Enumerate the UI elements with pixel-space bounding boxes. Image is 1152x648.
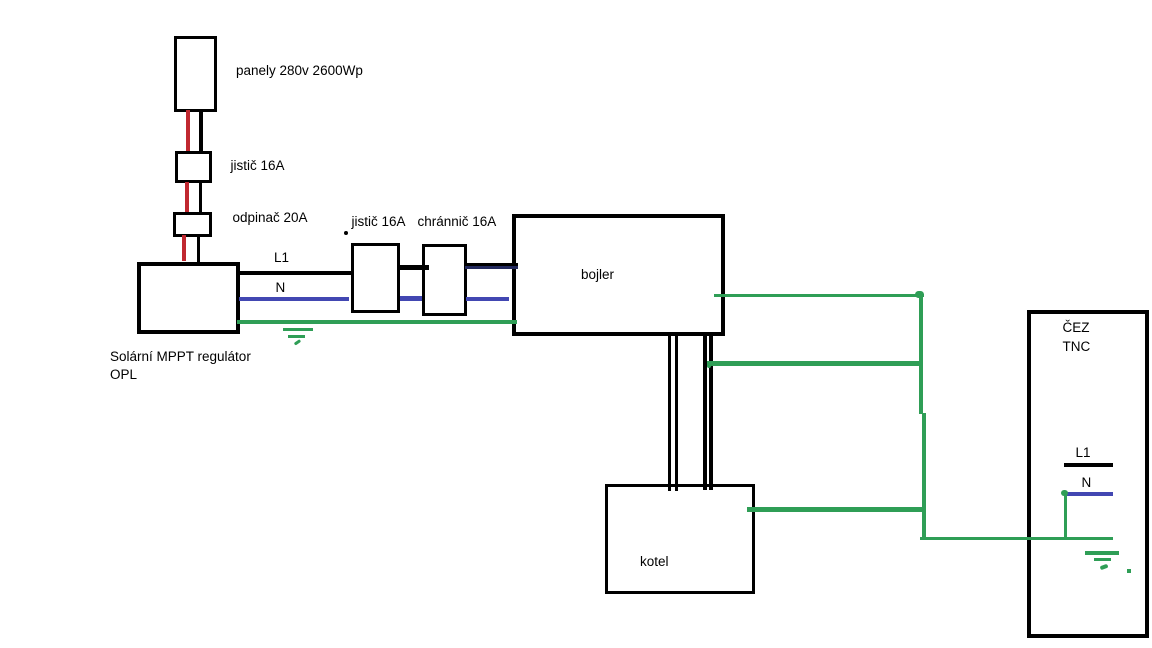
- wire black panel to jistic1: [199, 109, 203, 152]
- label odpinac 20A: [233, 210, 308, 226]
- wire L1 black in CEZ: [1064, 463, 1113, 467]
- solar MPPT regulator box: [137, 262, 240, 335]
- bojler box: [512, 214, 725, 336]
- label bojler: [581, 267, 614, 283]
- wire blue chrannic to bojler: [466, 297, 509, 301]
- breaker jistic 16A (DC): [175, 151, 213, 183]
- label CEZ TNC: [1063, 318, 1091, 356]
- label panely 280v 2600Wp: [236, 63, 363, 79]
- junction dot green on N: [1061, 490, 1068, 496]
- solar panel box (panely): [174, 36, 217, 112]
- wire red odpinac to regulator: [182, 235, 186, 261]
- wire L1 black regulator to jistic2: [239, 271, 351, 276]
- wire blue jistic2 to chrannic: [400, 296, 425, 300]
- wire pair right bojler to kotel: [703, 334, 707, 490]
- ground symbol left: [283, 328, 313, 331]
- CEZ TNC box: [1027, 310, 1149, 638]
- junction dot top of bus: [915, 291, 924, 298]
- label Solarni MPPT regulator OPL: [110, 348, 251, 384]
- green bus vertical upper: [919, 294, 923, 414]
- RCD chrannic 16A: [422, 244, 467, 316]
- wire black jistic2 to chrannic: [400, 265, 429, 270]
- wire red jistic1 to odpinac: [185, 182, 189, 213]
- stray dot near jistic2 label: [344, 231, 348, 235]
- node label L1 in CEZ: [1076, 445, 1091, 461]
- wire PE green regulator to bojler: [237, 320, 517, 324]
- node label N in CEZ: [1082, 475, 1092, 491]
- breaker jistic 16A (AC): [351, 243, 400, 313]
- stray green dot: [1127, 569, 1131, 573]
- wire N blue in CEZ: [1064, 492, 1113, 496]
- label kotel: [640, 554, 669, 570]
- green bus vertical lower: [922, 413, 926, 540]
- wire PE green bojler to bus: [714, 294, 924, 298]
- wire green bottom bus to CEZ: [920, 537, 1114, 541]
- wire red panel to jistic1: [186, 110, 190, 151]
- label jistic 16A (DC): [231, 158, 285, 174]
- wire green kotel to bus (wire 3): [747, 507, 924, 512]
- label jistic 16A (AC): [352, 214, 406, 230]
- ground symbol right: [1085, 551, 1119, 555]
- wire pair left bojler to kotel: [668, 334, 672, 491]
- node label L1: [274, 250, 289, 266]
- wire black jistic1 to odpinac: [199, 182, 202, 213]
- wire N blue regulator to jistic2: [239, 297, 349, 301]
- dot left end wire 2: [707, 361, 711, 368]
- wire black odpinac to regulator: [197, 235, 201, 267]
- wire green vertical in CEZ: [1064, 492, 1068, 539]
- label chrannic 16A: [418, 214, 497, 230]
- wire green bojler area to bus (wire 2): [707, 361, 922, 366]
- kotel box: [605, 484, 755, 594]
- wire black chrannic to bojler: [465, 263, 518, 266]
- node label N: [276, 280, 286, 296]
- wire navy chrannic to bojler: [465, 266, 518, 269]
- disconnector odpinac 20A: [173, 212, 212, 237]
